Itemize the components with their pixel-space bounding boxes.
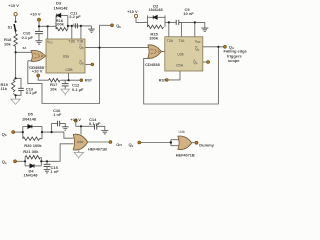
svg-text:+10 V: +10 V — [127, 9, 138, 14]
svg-text:Qb: Qb — [129, 142, 134, 148]
svg-text:S1: S1 — [8, 26, 13, 30]
svg-text:RST: RST — [159, 78, 167, 82]
svg-text:U4b: U4b — [179, 130, 185, 134]
svg-text:100k: 100k — [149, 36, 159, 41]
svg-text:R21 30k: R21 30k — [23, 149, 39, 154]
svg-text:+10 V: +10 V — [32, 69, 43, 74]
svg-text:10k: 10k — [50, 86, 57, 91]
svg-text:QB: QB — [79, 61, 84, 66]
svg-text:U4a: U4a — [77, 140, 83, 144]
svg-text:scope: scope — [228, 58, 240, 63]
svg-text:11k: 11k — [1, 86, 8, 91]
svg-text:+10 V: +10 V — [30, 11, 41, 16]
svg-text:0.1 µF: 0.1 µF — [26, 90, 38, 95]
svg-text:VCC: VCC — [47, 40, 53, 45]
svg-text:CD4538: CD4538 — [145, 62, 160, 67]
svg-text:HEF4071B: HEF4071B — [88, 147, 107, 151]
svg-text:Dummy: Dummy — [199, 142, 214, 147]
svg-text:1 nF: 1 nF — [53, 112, 62, 117]
svg-text:U3a: U3a — [63, 55, 69, 59]
svg-text:Qb: Qb — [116, 23, 121, 29]
svg-text:On: On — [116, 142, 122, 147]
svg-text:R20 100k: R20 100k — [24, 143, 42, 148]
svg-text:T2B: T2B — [69, 40, 76, 44]
svg-text:1N4148: 1N4148 — [149, 7, 164, 12]
svg-text:+10 V: +10 V — [8, 3, 19, 8]
svg-text:T1B: T1B — [77, 40, 84, 44]
svg-text:Qa: Qa — [2, 159, 7, 165]
svg-text:0.1 µF: 0.1 µF — [22, 35, 34, 40]
svg-text:HEF4071B: HEF4071B — [176, 154, 195, 158]
svg-text:QA: QA — [193, 61, 198, 66]
svg-text:1N4148: 1N4148 — [22, 116, 37, 121]
svg-text:2.2 µF: 2.2 µF — [69, 14, 81, 19]
svg-text:1N4148: 1N4148 — [24, 172, 39, 177]
svg-text:1N4148: 1N4148 — [54, 6, 69, 11]
svg-text:D3: D3 — [56, 0, 62, 5]
svg-text:1 nF: 1 nF — [51, 169, 60, 174]
svg-text:RST: RST — [85, 79, 93, 83]
svg-text:0.1 µF: 0.1 µF — [89, 121, 101, 126]
svg-text:CDA: CDA — [176, 64, 184, 68]
svg-text:T1A: T1A — [178, 39, 185, 43]
svg-text:Qb: Qb — [2, 131, 7, 137]
svg-text:100k: 100k — [55, 21, 65, 26]
svg-text:CDB: CDB — [65, 68, 73, 72]
svg-text:10 nF: 10 nF — [183, 11, 194, 16]
svg-text:T2A: T2A — [167, 39, 174, 43]
svg-text:+10 V: +10 V — [70, 117, 81, 122]
svg-text:U3b: U3b — [177, 52, 183, 56]
svg-text:10k: 10k — [4, 41, 11, 46]
svg-text:0.1 µF: 0.1 µF — [72, 87, 84, 92]
